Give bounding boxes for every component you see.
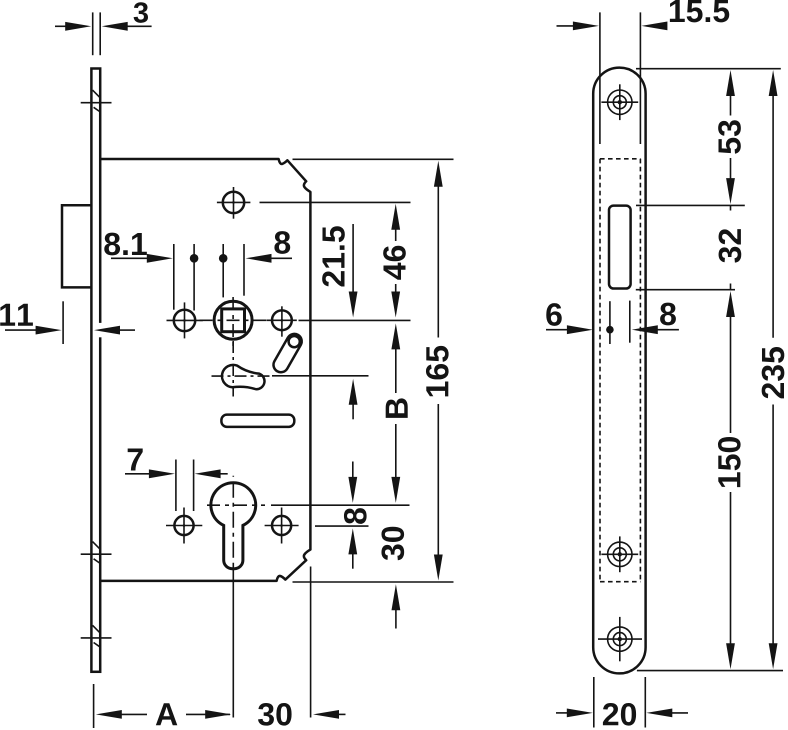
dashed lock case box	[600, 159, 640, 582]
keyhole pivot cutout	[212, 341, 272, 397]
break mark lower-1	[81, 542, 112, 563]
side hole left (spindle row)	[167, 302, 203, 338]
latch slot front view	[609, 206, 631, 289]
dimension A	[96, 703, 231, 725]
dimension B (chain x=396)	[386, 323, 408, 503]
spindle row extension line	[299, 319, 411, 321]
angled lever slot	[273, 334, 301, 372]
dimension 3 (faceplate thickness)	[55, 2, 152, 55]
lower hole right	[265, 508, 299, 544]
side hole right (spindle row)	[267, 306, 297, 336]
dimension 150	[718, 291, 741, 669]
keyhole centre extension line	[272, 375, 369, 377]
dimension 15.5	[557, 0, 730, 144]
euro profile cylinder hole	[203, 476, 265, 569]
faceplate extension line (bottom)	[93, 684, 95, 728]
dimension 21.5 (chain x=353)	[322, 224, 357, 419]
dimension 8.1 / 8 (fixing dots row)	[104, 231, 292, 310]
faceplate top extension line	[636, 68, 781, 70]
dimension 32	[719, 205, 742, 289]
dimension 7	[125, 448, 228, 511]
top hole centre extension line	[260, 201, 411, 203]
lower holes row extension line (y=526)	[315, 525, 369, 527]
lock right edge extension line (bottom)	[310, 567, 312, 718]
screw hole top	[601, 84, 638, 120]
faceplate front view outline	[593, 68, 645, 674]
lock body outline	[100, 159, 310, 581]
break mark lower-2	[81, 625, 112, 646]
break mark upper	[81, 90, 112, 111]
screw hole bottom	[598, 617, 642, 661]
lock bottom edge extension line	[293, 581, 454, 583]
dimension 235	[762, 70, 785, 669]
horizontal slot	[221, 415, 294, 427]
lock top edge extension line	[293, 158, 454, 160]
latch bolt box	[62, 205, 91, 287]
cylinder centre extension line (y=505)	[271, 504, 410, 506]
slot top extension line (53/32 boundary)	[636, 204, 745, 206]
dimension 46 (chain x=396)	[383, 204, 406, 318]
screw hole middle	[601, 536, 638, 572]
dimension 20	[556, 677, 688, 728]
dimension 53	[718, 70, 741, 204]
cylinder vertical centreline extended to bottom dims	[232, 566, 234, 718]
faceplate bottom extension line	[637, 670, 783, 672]
slot bottom extension line (32/150 boundary)	[636, 289, 735, 291]
dimension 6 / 8 (front fixing)	[546, 301, 679, 344]
dimension 11 (latch protrusion)	[0, 301, 135, 344]
lower hole left	[166, 508, 202, 544]
dimension 30 bottom	[258, 703, 345, 726]
dimension 8 lower (chain x=353)	[344, 462, 367, 569]
faceplate side view strip	[91, 69, 100, 672]
dimension 165	[426, 161, 449, 581]
top hole	[217, 187, 251, 219]
dimension 30 vertical (chain x=396)	[381, 527, 404, 629]
spindle follower hub	[196, 293, 273, 348]
